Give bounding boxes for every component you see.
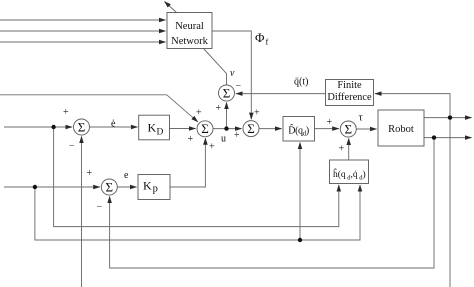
svg-text:Σ: Σ bbox=[247, 121, 255, 136]
summing junction S5 bbox=[243, 121, 259, 137]
node junction dot robot top output bbox=[448, 115, 452, 119]
summing junction S1 bbox=[74, 119, 90, 135]
svg-text:τ: τ bbox=[359, 113, 363, 124]
node u junction dot bbox=[224, 126, 228, 130]
svg-text:v: v bbox=[230, 68, 235, 79]
svg-text:Φ: Φ bbox=[255, 30, 265, 45]
wire sum S3 to node u to sum S5 bbox=[213, 128, 242, 130]
wire NN output to Phi_f vertical into sum S5 bbox=[212, 31, 251, 119]
summing junction S4 bbox=[219, 85, 235, 101]
block Robot bbox=[378, 110, 424, 146]
node junction dot qd lower bbox=[298, 238, 302, 242]
wire KD to sum S3 bbox=[170, 128, 196, 130]
wire Dhat to sum S6 bbox=[315, 128, 339, 130]
block KD bbox=[139, 115, 170, 140]
block Dhat bbox=[283, 117, 315, 142]
wire hhat to sum S6 bbox=[348, 139, 350, 161]
wire tau from sum S6 to Robot bbox=[356, 128, 376, 130]
wire qdd desired into sum S3 diagonal bbox=[0, 95, 198, 122]
block KP bbox=[138, 175, 170, 200]
svg-text:q̈(t): q̈(t) bbox=[294, 77, 308, 88]
wire KP to sum S3 bottom bbox=[170, 138, 205, 187]
wire Robot output top bbox=[424, 117, 472, 119]
wire qdd(t) from Finite Difference to sum S4 bbox=[236, 93, 326, 95]
summing junction S2 bbox=[101, 179, 117, 195]
svg-text:e: e bbox=[124, 170, 129, 181]
block Finite Difference bbox=[326, 80, 374, 106]
svg-text:Σ: Σ bbox=[201, 121, 209, 136]
node junction dot qd_dot bbox=[51, 125, 55, 129]
svg-text:K: K bbox=[143, 179, 152, 193]
wire feedback bottom output to sum S2 bbox=[110, 138, 434, 268]
svg-text:−: − bbox=[236, 81, 242, 92]
svg-text:Σ: Σ bbox=[106, 179, 114, 194]
svg-text:+: + bbox=[216, 103, 222, 114]
wire Robot output bottom bbox=[424, 137, 472, 139]
wire NN input 3 bbox=[0, 41, 166, 43]
svg-text:u: u bbox=[221, 134, 226, 145]
block Neural Network bbox=[167, 13, 212, 49]
wire qd feedforward to hhat and Dhat bbox=[35, 185, 360, 240]
wire sum S1 to KD bbox=[90, 126, 138, 128]
svg-text:D: D bbox=[157, 127, 164, 137]
node junction dot qd bbox=[33, 185, 37, 189]
wire NN input 2 bbox=[0, 30, 166, 32]
svg-text:Σ: Σ bbox=[78, 119, 86, 134]
svg-text:Robot: Robot bbox=[388, 124, 414, 135]
wire sum S5 to Dhat bbox=[259, 128, 281, 130]
svg-text:ė: ė bbox=[111, 119, 116, 130]
svg-text:K: K bbox=[148, 121, 157, 135]
wire input qd to sum S2 bbox=[4, 186, 100, 188]
svg-text:+: + bbox=[327, 117, 333, 128]
wire node qd branch up to Dhat bbox=[299, 143, 301, 241]
wire node u up to sum S4 bbox=[226, 103, 228, 129]
wire feedback top output to Finite Difference bbox=[375, 94, 450, 118]
svg-text:−: − bbox=[69, 141, 75, 152]
svg-text:D̂(qd): D̂(qd) bbox=[288, 123, 309, 137]
svg-text:p: p bbox=[153, 184, 158, 195]
node junction dot robot bottom output bbox=[432, 135, 436, 139]
svg-text:Finite: Finite bbox=[337, 80, 362, 91]
wire qd_dot feedforward to hhat bbox=[54, 127, 339, 227]
block hhat bbox=[330, 160, 369, 184]
wire sum S2 to KP bbox=[117, 186, 136, 188]
svg-text:Σ: Σ bbox=[345, 121, 353, 136]
summing junction S3 bbox=[197, 121, 213, 137]
svg-text:Σ: Σ bbox=[223, 85, 231, 100]
svg-text:+: + bbox=[339, 144, 345, 155]
svg-text:+: + bbox=[209, 142, 215, 153]
svg-text:+: + bbox=[188, 134, 194, 145]
wire NN tuning arrow out top bbox=[165, 2, 177, 13]
wire v signal from sum S4 up to NN box bbox=[204, 49, 227, 86]
summing junction S6 bbox=[340, 121, 356, 137]
svg-text:−: − bbox=[97, 202, 103, 213]
svg-text:f: f bbox=[266, 37, 269, 47]
wire feedback velocity to sum S1 bbox=[81, 137, 83, 287]
svg-text:+: + bbox=[87, 168, 93, 179]
svg-text:Network: Network bbox=[171, 36, 208, 47]
wire feedback vertical right long bbox=[449, 118, 451, 287]
svg-text:Neural: Neural bbox=[175, 21, 204, 32]
svg-text:+: + bbox=[196, 108, 202, 119]
svg-text:+: + bbox=[63, 107, 69, 118]
wire NN input 1 bbox=[0, 19, 166, 21]
svg-text:+: + bbox=[254, 108, 260, 119]
svg-text:+: + bbox=[234, 130, 240, 141]
wire input qd_dot to sum S1 bbox=[4, 126, 72, 128]
svg-text:Difference: Difference bbox=[327, 92, 372, 103]
